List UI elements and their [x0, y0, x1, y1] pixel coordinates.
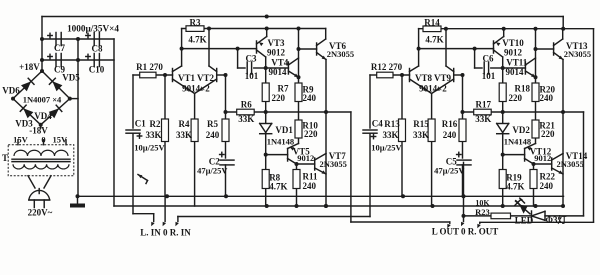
svg-text:33K: 33K	[176, 130, 192, 140]
svg-text:2N3055: 2N3055	[564, 49, 591, 59]
svg-text:T: T	[2, 153, 8, 163]
svg-text:R3: R3	[190, 18, 201, 28]
svg-text:VT10: VT10	[502, 38, 524, 48]
svg-text:LED: LED	[515, 216, 534, 226]
svg-text:240: 240	[303, 93, 317, 103]
svg-text:R15: R15	[413, 119, 429, 129]
svg-text:240: 240	[540, 93, 554, 103]
svg-text:10µ/25V: 10µ/25V	[371, 143, 402, 153]
svg-text:R22: R22	[540, 172, 556, 182]
svg-text:9012: 9012	[534, 153, 551, 163]
svg-text:VD4: VD4	[34, 111, 52, 121]
svg-text:240: 240	[206, 130, 220, 140]
svg-text:VD1: VD1	[275, 125, 293, 135]
svg-text:C3: C3	[246, 54, 257, 64]
svg-text:220: 220	[272, 93, 286, 103]
svg-text:VT11: VT11	[506, 58, 528, 68]
svg-text:4.7K: 4.7K	[188, 35, 206, 45]
svg-text:4.7K: 4.7K	[425, 35, 443, 45]
svg-text:4.7K: 4.7K	[506, 182, 524, 192]
svg-text:C7: C7	[54, 43, 65, 53]
svg-text:R13: R13	[384, 119, 400, 129]
svg-text:L OUT 0 R. OUT: L OUT 0 R. OUT	[432, 227, 499, 237]
svg-text:R16: R16	[442, 119, 458, 129]
svg-text:220: 220	[509, 93, 523, 103]
svg-text:10µ/25V: 10µ/25V	[134, 143, 165, 153]
svg-text:101: 101	[245, 71, 259, 81]
svg-text:2N3055: 2N3055	[320, 159, 347, 169]
svg-text:R5: R5	[207, 119, 218, 129]
svg-text:33K: 33K	[238, 114, 254, 124]
svg-text:2N3055: 2N3055	[557, 159, 584, 169]
svg-text:VD5: VD5	[62, 73, 80, 83]
svg-text:C8: C8	[92, 44, 103, 54]
svg-text:33K: 33K	[413, 130, 429, 140]
svg-text:C6: C6	[483, 54, 494, 64]
svg-text:R11: R11	[303, 172, 319, 182]
svg-text:VT1 VT2: VT1 VT2	[178, 73, 215, 83]
svg-text:9012: 9012	[297, 153, 314, 163]
svg-text:220: 220	[541, 129, 555, 139]
svg-text:220V~: 220V~	[28, 208, 53, 218]
svg-text:9014: 9014	[506, 67, 525, 77]
svg-text:240: 240	[443, 130, 457, 140]
svg-text:C4: C4	[372, 119, 383, 129]
svg-text:240: 240	[303, 181, 317, 191]
svg-text:9014: 9014	[269, 67, 288, 77]
svg-text:9014×2: 9014×2	[182, 84, 210, 94]
svg-text:33K: 33K	[475, 114, 491, 124]
svg-text:R14: R14	[424, 18, 440, 28]
svg-text:R12 270: R12 270	[371, 62, 403, 72]
svg-text:VD2: VD2	[512, 125, 530, 135]
svg-text:R6: R6	[241, 100, 252, 110]
svg-text:R17: R17	[476, 100, 492, 110]
svg-text:1N4148: 1N4148	[504, 137, 531, 147]
svg-text:9012: 9012	[504, 48, 523, 58]
svg-text:L. IN 0 R. IN: L. IN 0 R. IN	[140, 228, 191, 238]
svg-text:Φ3灯: Φ3灯	[546, 214, 567, 225]
svg-text:0: 0	[41, 135, 45, 145]
svg-text:47µ/25V: 47µ/25V	[434, 166, 465, 176]
svg-text:1N4148: 1N4148	[267, 137, 294, 147]
svg-text:R1 270: R1 270	[136, 62, 163, 72]
svg-text:2N3055: 2N3055	[327, 49, 354, 59]
svg-text:240: 240	[540, 181, 554, 191]
svg-text:4.7K: 4.7K	[269, 182, 287, 192]
svg-text:R4: R4	[179, 119, 190, 129]
svg-text:33K: 33K	[382, 130, 398, 140]
svg-text:9014×2: 9014×2	[419, 84, 447, 94]
svg-text:47µ/25V: 47µ/25V	[197, 166, 228, 176]
svg-text:+18V: +18V	[19, 62, 40, 72]
svg-text:101: 101	[482, 71, 496, 81]
svg-text:1N4007 ×4: 1N4007 ×4	[23, 95, 62, 105]
svg-text:VD6: VD6	[2, 86, 20, 96]
svg-text:33K: 33K	[145, 130, 161, 140]
svg-text:15V: 15V	[13, 135, 29, 145]
svg-text:C1: C1	[135, 119, 146, 129]
svg-text:R23: R23	[475, 207, 490, 217]
svg-text:220: 220	[304, 129, 318, 139]
svg-text:1000µ/35V×4: 1000µ/35V×4	[67, 24, 119, 34]
svg-text:9012: 9012	[267, 48, 286, 58]
svg-text:VT3: VT3	[267, 38, 285, 48]
svg-text:VT8 VT9: VT8 VT9	[415, 73, 452, 83]
svg-text:C10: C10	[89, 65, 105, 75]
svg-text:R2: R2	[150, 119, 161, 129]
svg-text:15V: 15V	[52, 135, 68, 145]
svg-text:VT4: VT4	[271, 58, 289, 68]
